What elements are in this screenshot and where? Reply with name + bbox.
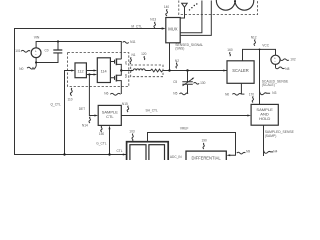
svg-text:N15: N15	[122, 102, 128, 106]
wire 170 lead squiggle	[252, 97, 253, 103]
wire N8 tilde	[276, 67, 285, 69]
wire VCC bottom stub	[275, 64, 277, 68]
capacitor C0	[57, 42, 59, 50]
svg-text:120: 120	[141, 52, 147, 56]
svg-text:N8: N8	[285, 67, 289, 71]
svg-text:G_CTL: G_CTL	[96, 142, 107, 146]
svg-text:Q_CTL: Q_CTL	[51, 102, 62, 106]
svg-text:CTL: CTL	[106, 114, 114, 119]
svg-text:N11: N11	[130, 40, 136, 44]
svg-text:N12: N12	[251, 35, 257, 39]
svg-text:N6: N6	[104, 92, 108, 96]
svg-text:(SCALE): (SCALE)	[262, 83, 275, 87]
svg-text:MUX: MUX	[168, 26, 178, 31]
wire main sense bus with inductor and resistor	[121, 70, 133, 72]
svg-text:150: 150	[99, 132, 105, 136]
differential block 190	[186, 151, 226, 163]
wire N11 tilde	[123, 42, 129, 44]
svg-text:110: 110	[68, 98, 73, 102]
wire scaler top / VCC rail	[243, 49, 276, 60]
svg-text:190: 190	[202, 139, 208, 143]
svg-text:160: 160	[227, 48, 233, 52]
wire DET	[89, 75, 95, 116]
svg-text:HOLD: HOLD	[259, 116, 270, 121]
node M_CTL arrowhead into MUX	[162, 27, 166, 29]
wire sampled_sense stub	[263, 125, 265, 156]
svg-text:−: −	[274, 60, 276, 64]
wire 130 tilde	[194, 83, 200, 85]
svg-text:140: 140	[164, 5, 170, 9]
wire N3 tilde	[260, 91, 271, 94]
svg-text:N1: N1	[132, 53, 136, 57]
junction FET node	[120, 69, 122, 71]
coil junction dot	[234, 0, 236, 2]
sample ctl 150	[98, 105, 121, 125]
block 112	[75, 63, 86, 78]
wire 110 lead	[70, 88, 72, 96]
wire 140 lead squiggle	[166, 9, 168, 16]
wire coil lead B	[180, 1, 211, 36]
junction Q_CTL bus	[63, 153, 65, 155]
antenna	[180, 3, 187, 18]
svg-text:N14: N14	[82, 124, 88, 128]
svg-text:CTL: CTL	[117, 149, 123, 153]
wire N0b tilde	[232, 93, 244, 95]
svg-text:N4: N4	[273, 150, 277, 154]
svg-text:VIN: VIN	[34, 35, 40, 39]
dashed driver box 110	[68, 53, 129, 87]
transistor MP (pmos)	[110, 59, 121, 71]
svg-text:112: 112	[78, 69, 84, 73]
wire SH_CTL	[121, 115, 248, 117]
junction dot inductor start	[131, 70, 133, 72]
wire 101 tilde	[21, 50, 30, 52]
svg-text:(SAMP): (SAMP)	[265, 134, 277, 138]
wire Q_CTL	[65, 71, 72, 155]
svg-text:C5: C5	[173, 80, 177, 84]
inductor 120	[133, 69, 145, 71]
svg-text:SH_CTL: SH_CTL	[146, 109, 158, 113]
wire N1 lead squiggle	[130, 58, 131, 64]
wire N6 tilde	[110, 93, 120, 95]
wire CTL loop (bottom bus, left edge, top M_CTL run)	[15, 29, 163, 155]
svg-text:N9: N9	[246, 150, 250, 154]
svg-text:−: −	[35, 53, 37, 57]
wire N13 lead squiggle	[154, 22, 156, 28]
svg-text:N5: N5	[173, 92, 177, 96]
wire VIN bottom loop	[36, 53, 58, 62]
svg-text:DIFFERENTIAL: DIFFERENTIAL	[192, 155, 222, 160]
wire 112 to 114 bottom	[86, 74, 94, 76]
wire VREF	[148, 133, 236, 156]
wire VIN top	[36, 42, 121, 60]
scaler 160	[227, 61, 254, 84]
mux U140	[166, 18, 180, 43]
svg-text:N13: N13	[150, 18, 156, 22]
wire scaler bottom stub	[240, 83, 242, 94]
transistor MN (nmos)	[110, 71, 121, 95]
coil loops (cut at top)	[216, 0, 235, 10]
wire 103 lead squiggle	[132, 134, 133, 142]
resistor (coil series R)	[151, 69, 227, 72]
wire MUX sense output down to bus	[169, 43, 171, 71]
wire scaled_sense branch	[259, 49, 261, 104]
svg-text:SCALER: SCALER	[232, 68, 248, 73]
svg-text:DET: DET	[79, 107, 85, 111]
junction MUX tap	[168, 69, 170, 71]
wire 112 to 114 top	[86, 70, 94, 72]
capacitor C5 (variable)	[187, 71, 189, 94]
junction VIN bottom	[35, 61, 37, 63]
wire 102 tilde	[280, 59, 289, 61]
svg-text:170: 170	[249, 92, 255, 96]
wire N5 tilde	[180, 93, 189, 95]
svg-text:114: 114	[101, 69, 107, 73]
adc block 103 (double box)	[127, 142, 169, 164]
block 114	[97, 58, 110, 83]
wire N2 lead squiggle	[176, 63, 177, 69]
wire 190 lead squiggle	[203, 143, 204, 149]
svg-text:103: 103	[129, 129, 135, 133]
dashed coil model box	[131, 65, 163, 77]
svg-text:101: 101	[15, 49, 21, 53]
svg-text:ADC_IN: ADC_IN	[170, 155, 182, 159]
dashed sensor enclosure	[179, 1, 258, 15]
wire coil lead A	[180, 1, 202, 33]
wire N15 lead squiggle	[127, 106, 128, 112]
sample and hold 170	[251, 104, 278, 125]
svg-text:N0: N0	[19, 67, 23, 71]
wire N4 tilde	[264, 150, 274, 153]
svg-text:MN: MN	[124, 74, 128, 78]
wire N0 tilde	[27, 64, 36, 70]
svg-text:102: 102	[290, 58, 296, 62]
wire 160 lead squiggle	[229, 52, 232, 56]
svg-text:C0: C0	[45, 49, 49, 53]
junction C0 top	[57, 40, 59, 42]
svg-text:130: 130	[200, 81, 206, 85]
svg-text:VCC: VCC	[262, 44, 269, 48]
junction DET tap	[88, 73, 90, 75]
svg-text:M_CTL: M_CTL	[131, 25, 142, 29]
radiation dots	[189, 9, 190, 10]
wire 150 lead squiggle	[101, 126, 102, 132]
source VCC 102	[271, 55, 280, 64]
svg-text:VREF: VREF	[180, 127, 189, 131]
arrow into adc box	[123, 154, 127, 156]
wire G_CTL stub	[109, 128, 111, 154]
wire N12 lead squiggle	[254, 40, 255, 46]
svg-text:(SNS): (SNS)	[175, 47, 184, 51]
junction C5 tap	[186, 69, 188, 71]
svg-text:N3: N3	[272, 91, 276, 95]
wire N14 lead squiggle	[89, 117, 90, 123]
wire 120 lead squiggle	[143, 56, 146, 60]
wire N9 tilde	[237, 152, 246, 154]
svg-text:MP: MP	[124, 61, 128, 65]
svg-text:N0: N0	[225, 93, 229, 97]
svg-text:N2: N2	[175, 59, 179, 63]
source VIN 101	[31, 48, 41, 58]
